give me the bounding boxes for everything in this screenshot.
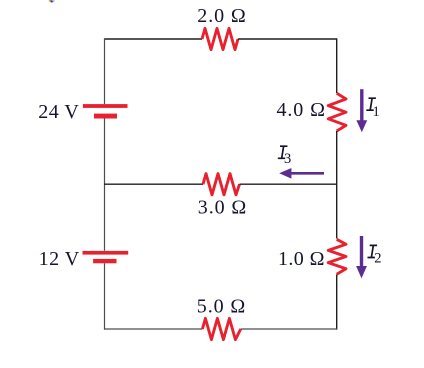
wire top-left horizontal xyxy=(105,38,203,40)
wire left upper vertical (to 24V battery) xyxy=(104,38,106,104)
wire right middle vertical (4.0 ohm to 1.0 ohm) xyxy=(336,131,338,239)
current label I2 xyxy=(368,245,382,266)
battery 24 V xyxy=(83,104,128,118)
resistor 3.0 ohm (middle) xyxy=(203,174,240,195)
wire top-right horizontal xyxy=(238,38,337,40)
current label I1 xyxy=(366,98,379,120)
cropped text artifact (top edge) xyxy=(49,0,55,2)
wire left middle vertical (24V battery to 12V battery) xyxy=(104,119,106,251)
resistor 2.0 ohm (top) xyxy=(202,28,238,49)
value label 1.0 ohm xyxy=(278,248,325,270)
svg-text:12 V: 12 V xyxy=(39,248,80,270)
current arrow I3 xyxy=(279,168,324,179)
battery 12 V xyxy=(83,251,129,263)
svg-text:24 V: 24 V xyxy=(38,101,79,123)
wire middle-left horizontal xyxy=(104,183,203,185)
svg-text:2.0 Ω: 2.0 Ω xyxy=(197,5,246,27)
svg-text:3.0 Ω: 3.0 Ω xyxy=(198,197,247,219)
wire middle-right horizontal xyxy=(240,183,338,185)
value label 4.0 ohm xyxy=(277,99,326,121)
wire left lower vertical (12V battery to bottom-left corner) xyxy=(104,263,106,329)
resistor 1.0 ohm (right lower) xyxy=(328,239,346,274)
wire right upper vertical (to 4.0 ohm) xyxy=(336,38,338,93)
value label 2.0 ohm xyxy=(197,5,246,27)
wire bottom-right horizontal xyxy=(241,328,337,330)
current arrow I1 xyxy=(356,89,367,132)
svg-text:2: 2 xyxy=(374,251,381,267)
current arrow I2 xyxy=(356,236,367,278)
resistor 5.0 ohm (bottom) xyxy=(202,318,240,339)
svg-text:1: 1 xyxy=(373,104,380,120)
svg-text:3: 3 xyxy=(284,151,291,167)
svg-text:4.0 Ω: 4.0 Ω xyxy=(277,99,326,121)
wire bottom-left horizontal xyxy=(104,328,202,330)
value label 5.0 ohm xyxy=(197,295,246,317)
value label 12 V xyxy=(39,248,80,270)
value label 3.0 ohm xyxy=(198,197,247,219)
current label I3 xyxy=(278,146,291,167)
svg-text:1.0 Ω: 1.0 Ω xyxy=(278,248,325,270)
wire right lower vertical (1.0 ohm to bottom-right corner) xyxy=(336,275,338,330)
value label 24 V xyxy=(38,101,79,123)
svg-text:5.0 Ω: 5.0 Ω xyxy=(197,295,246,317)
resistor 4.0 ohm (right upper) xyxy=(328,93,346,131)
